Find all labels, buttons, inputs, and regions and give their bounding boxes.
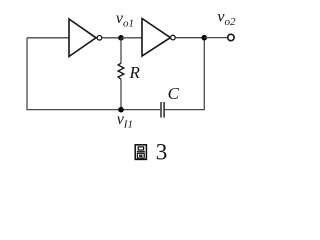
- wire node v_o2 to output terminal: [204, 37, 227, 39]
- wire node v_o1 to inverter U2 input: [121, 37, 142, 39]
- op-amp U2 inverter triangle: [142, 19, 170, 57]
- output terminal open circle v_o2: [228, 34, 234, 40]
- wire top-left feedback (v_I1 to inverter U1 input): [27, 37, 69, 39]
- svg-text:vI1: vI1: [117, 111, 133, 131]
- node v_o1 junction dot: [118, 35, 124, 41]
- resistor R zigzag: [118, 63, 124, 79]
- svg-text:R: R: [129, 63, 141, 82]
- capacitor C right plate: [163, 102, 165, 118]
- wire inverter U1 bubble to node v_o1: [102, 37, 121, 39]
- caption glyph 圖 drawn as strokes: [135, 145, 146, 160]
- wire capacitor C right plate to bottom-right corner: [165, 109, 205, 111]
- node v_I1 junction dot: [118, 107, 124, 113]
- op-amp U1 inverter triangle: [69, 19, 96, 57]
- wire right vertical (v_o2 down to bottom corner): [203, 38, 205, 111]
- wire node v_o1 down to resistor R top: [120, 38, 122, 63]
- svg-text:3: 3: [156, 139, 168, 165]
- capacitor C left plate: [160, 102, 162, 118]
- wire resistor R bottom to node v_I1: [120, 79, 122, 109]
- svg-text:C: C: [168, 84, 180, 103]
- inverter U2 output bubble: [171, 35, 176, 40]
- wire node v_I1 to capacitor C left plate: [121, 109, 160, 111]
- svg-text:vo1: vo1: [116, 10, 134, 30]
- wire left vertical feedback: [26, 38, 28, 110]
- wire bottom-left (feedback to node v_I1): [26, 109, 121, 111]
- wire inverter U2 bubble to node v_o2: [175, 37, 204, 39]
- svg-text:vo2: vo2: [217, 9, 236, 29]
- inverter U1 output bubble: [97, 36, 102, 41]
- node v_o2 junction dot: [202, 35, 208, 41]
